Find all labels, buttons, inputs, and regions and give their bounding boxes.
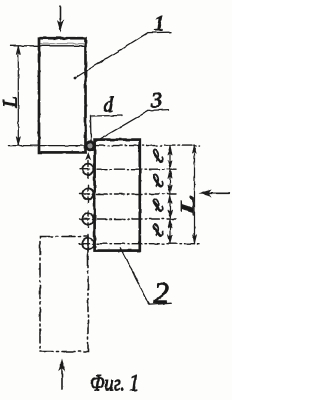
svg-text:ℓ: ℓ bbox=[146, 145, 169, 168]
svg-text:1: 1 bbox=[154, 11, 165, 35]
svg-text:3: 3 bbox=[150, 87, 162, 112]
dimension L left bbox=[16, 46, 20, 146]
roller R3 bbox=[80, 210, 177, 228]
dimension chain l (rollers pitch) bbox=[168, 146, 172, 244]
svg-text:2: 2 bbox=[154, 275, 170, 310]
roller R1 bbox=[80, 161, 177, 179]
roller R2 bbox=[80, 185, 177, 203]
svg-text:ℓ: ℓ bbox=[146, 194, 169, 217]
svg-text:L: L bbox=[178, 195, 199, 216]
wire / extension line top of dimension L left bbox=[10, 45, 86, 47]
svg-text:L: L bbox=[0, 96, 22, 108]
force arrow top (down) bbox=[58, 6, 64, 31]
leader 1 bbox=[74, 32, 171, 79]
force arrow right (left-pointing) bbox=[200, 190, 229, 196]
extension line bottom of dimension L left (wire axis) bbox=[9, 145, 87, 147]
arrowhead at node bbox=[86, 153, 91, 160]
svg-text:ℓ: ℓ bbox=[146, 219, 169, 242]
die 2 (lower rectangle) bbox=[95, 140, 140, 251]
node d (wire cross-section circle) bbox=[86, 142, 94, 150]
force arrow bottom (up) bbox=[59, 360, 65, 389]
punch inner edge line bbox=[40, 43, 86, 45]
svg-text:ℓ: ℓ bbox=[146, 170, 169, 193]
dimension L right bbox=[192, 145, 196, 244]
phantom punch (lower position, dash-dot) bbox=[40, 237, 88, 352]
punch 1 (upper rectangle) bbox=[39, 38, 86, 152]
leader 2 bbox=[120, 248, 171, 305]
svg-text:Фиг. 1: Фиг. 1 bbox=[90, 371, 139, 396]
svg-text:d: d bbox=[103, 93, 114, 117]
centerline top (through node d) bbox=[95, 145, 200, 147]
roller R4 bbox=[80, 235, 201, 257]
